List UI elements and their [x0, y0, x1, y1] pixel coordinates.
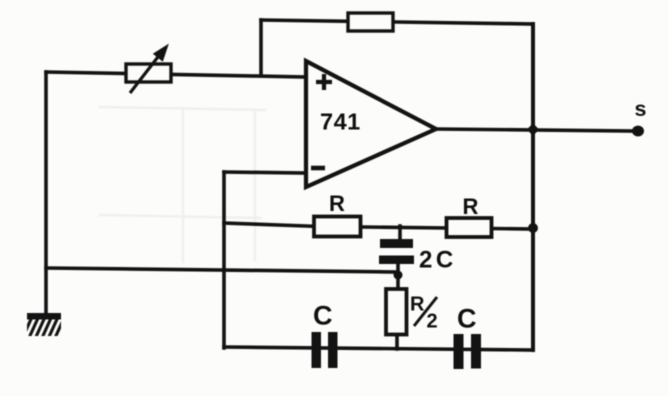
svg-text:R: R — [463, 194, 479, 219]
ghost bleed-through marks — [100, 107, 265, 262]
svg-text:C: C — [457, 304, 477, 334]
op-amp 741 — [306, 61, 436, 187]
svg-text:R: R — [329, 191, 345, 216]
wire inverting input line — [224, 172, 306, 173]
variable resistor (input) — [126, 46, 171, 93]
wire top feedback from node A to output vertical — [261, 20, 533, 24]
svg-text:741: 741 — [320, 109, 361, 135]
wire stub R-R to 2C top plate — [398, 226, 402, 241]
wire right vertical (output to bottom) — [531, 24, 535, 350]
node twin-T center junction — [394, 271, 403, 280]
plus input marking — [316, 74, 332, 90]
wire ground link to twin-T center — [46, 268, 398, 272]
ground — [22, 313, 65, 339]
svg-text:2C: 2C — [419, 247, 457, 274]
svg-text:C: C — [313, 301, 333, 331]
resistor R/2 — [386, 289, 407, 335]
resistor R (left of twin-T) — [314, 217, 361, 237]
wire bottom of twin-T — [224, 347, 533, 350]
capacitor C (left) — [312, 332, 338, 368]
resistor feedback (top) — [348, 13, 393, 31]
capacitor 2C — [379, 239, 414, 264]
minus input marking — [311, 166, 325, 171]
node terminal s — [632, 126, 644, 137]
node R-R right junction — [528, 223, 538, 233]
wire left vertical to ground — [44, 72, 48, 314]
wire stub 2C bottom plate to R/2 — [396, 262, 400, 290]
label R/2 — [410, 294, 438, 333]
svg-text:s: s — [635, 97, 647, 121]
capacitor C (right) — [454, 334, 482, 369]
svg-text:2: 2 — [427, 311, 438, 333]
wire output to terminal s — [436, 129, 634, 131]
wire vertical from top feedback down to non-inverting input — [259, 20, 263, 74]
wire R-R horizontal — [224, 223, 532, 229]
resistor R (right of twin-T) — [447, 218, 492, 237]
svg-text:R: R — [410, 294, 425, 316]
wire non-inverting input line — [46, 72, 306, 77]
wire stub R/2 to bottom wire — [395, 334, 399, 349]
wire left vertical of twin-T — [222, 172, 226, 348]
node output junction — [527, 123, 539, 136]
